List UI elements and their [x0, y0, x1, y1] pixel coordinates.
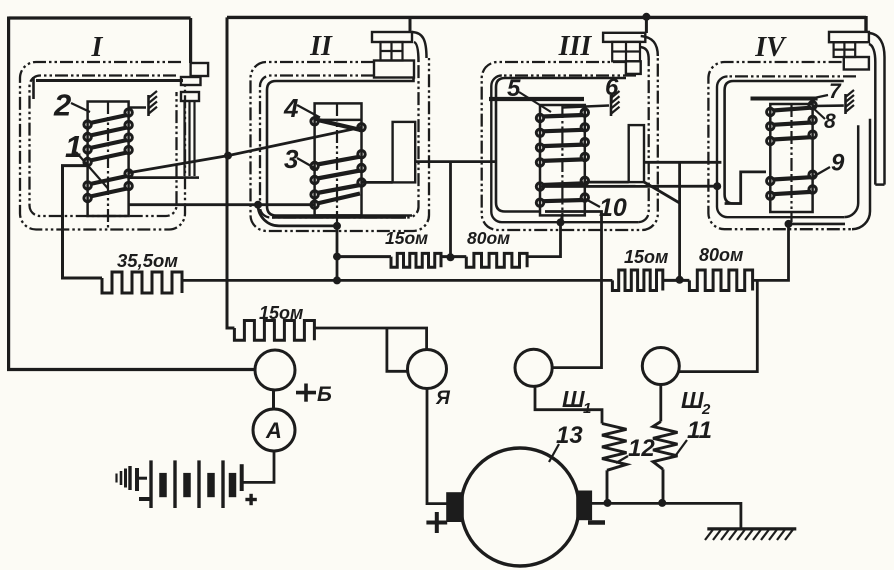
node junction resistor 12 bottom — [604, 499, 612, 507]
ground symbol — [707, 527, 796, 530]
coil I upper winding (2) turn d — [84, 158, 91, 165]
relay III case top-right corner outer (solid) — [641, 36, 658, 56]
node junction resistor 11 bottom — [658, 499, 666, 507]
relay II case inner (dash-dot) — [260, 62, 419, 218]
resistor 15 ohm row-1 comb — [391, 253, 441, 267]
svg-text:13: 13 — [556, 422, 583, 449]
coil IV lower winding (9) turn a — [767, 177, 774, 184]
svg-text:5: 5 — [507, 75, 521, 102]
contact III step plate — [626, 61, 641, 74]
label +B plus — [296, 391, 316, 395]
wire between row-1 resistors — [441, 255, 466, 258]
wire coil III axis to case bottom junction — [561, 215, 563, 222]
label motor minus — [588, 520, 605, 525]
leader for label 5 — [519, 92, 551, 112]
relay III case inner top (dash-dot) — [502, 74, 636, 76]
resistor 80 ohm row-2 comb — [689, 270, 752, 291]
wire step into coil IV lower winding — [725, 172, 766, 204]
wire coil III right rail to side bar — [585, 181, 629, 184]
svg-text:III: III — [558, 31, 593, 62]
leader for label 1 — [76, 152, 108, 189]
relay III case outer (dash-dot) — [482, 56, 658, 230]
resistor 80 ohm row-1 comb — [466, 253, 527, 267]
coil IV core rectangle — [770, 104, 812, 212]
wire between row-2 resistors — [663, 279, 690, 282]
coil I lower winding (1) turn a — [84, 182, 91, 189]
relay IV case top-right corner outer (solid) — [869, 33, 885, 57]
coil I upper winding (2) turn c — [84, 146, 91, 153]
relay I case outer (dash-dot) — [20, 62, 185, 230]
battery plate short 4 — [229, 473, 237, 497]
svg-text:35,5ом: 35,5ом — [117, 250, 178, 271]
wire lower 15 ohm exit to Ya terminal — [314, 328, 426, 350]
contact stack I tab C — [181, 92, 199, 101]
node junction row-2 between right resistors — [676, 276, 684, 284]
terminal Sh2 circle — [642, 348, 679, 385]
wire diagonal coil I to junction — [129, 156, 228, 173]
node bus junction above block III — [642, 13, 650, 21]
wire block II outer left edge down to 15 ohm resistor — [227, 17, 234, 328]
contact stack I tab B — [181, 77, 201, 85]
relay II case inner bottom (solid) — [272, 216, 406, 218]
relay II case top-right corner outer (solid) — [412, 32, 427, 58]
wire coil I rail bottom to coil II bottom — [129, 203, 315, 206]
relay IV right side outer (solid) — [883, 57, 886, 185]
coil III upper winding (5) turn a — [536, 114, 543, 121]
contact stack I tab A — [191, 63, 209, 76]
contact stack I leg 3 — [193, 101, 195, 176]
battery plate short 2 — [183, 473, 191, 497]
wire block I outer box right edge — [189, 18, 192, 63]
battery taper end — [115, 474, 117, 483]
leader for label 13 — [549, 444, 559, 462]
wire coil I armature arm to fixed contact — [129, 106, 146, 109]
svg-text:12: 12 — [628, 435, 655, 462]
svg-text:15ом: 15ом — [259, 303, 303, 323]
wire row-1 entry — [337, 255, 391, 258]
wire long row-2 from 35.5 ohm to right resistors — [182, 279, 612, 282]
wire diagonal side bar III to row-2 dropper — [644, 182, 680, 203]
battery plate short 1 — [159, 473, 167, 497]
relay IV bottom-right corner curve inner — [844, 125, 858, 217]
coil I core axis (dash-dot) — [107, 101, 109, 228]
coil I core rectangle — [88, 102, 129, 217]
relay IV case inner left+bottom (solid) — [717, 76, 844, 217]
contact IV tab bar — [829, 32, 869, 42]
relay IV right side inner (solid) — [874, 62, 877, 185]
armature bar III — [489, 97, 584, 101]
contact II square stack — [381, 42, 403, 61]
wire block I outer box top edge — [9, 16, 191, 19]
svg-text:8: 8 — [824, 110, 836, 133]
svg-text:10: 10 — [599, 194, 627, 222]
coil II lower winding (3) turn a — [311, 162, 318, 169]
relay III case inner right (dash-dot) — [638, 60, 649, 222]
relay IV case inner top (dash-dot) — [728, 75, 857, 77]
svg-text:А: А — [265, 418, 282, 443]
relay I inner frame stub — [32, 77, 35, 99]
relay II case top-right corner inner (solid) — [414, 42, 419, 62]
coil IV upper winding (8) turn b — [767, 123, 774, 130]
svg-text:7: 7 — [829, 80, 842, 103]
motor minus brush — [577, 492, 591, 520]
wire coil II axis down through resistor rows — [336, 226, 339, 281]
relay II case outer (dash-dot) — [251, 58, 430, 231]
coil II lower winding (3) turn b — [311, 176, 318, 183]
coil III lower winding (10) turn b — [536, 199, 543, 206]
resistor 15 ohm row-2 comb — [612, 270, 662, 291]
svg-text:15ом: 15ом — [385, 228, 428, 248]
node junction row-1 start — [333, 253, 341, 261]
svg-text:Ш: Ш — [562, 386, 585, 412]
svg-text:15ом: 15ом — [624, 247, 668, 267]
wire side bar II to block III frame — [415, 160, 496, 163]
battery minus sign — [139, 497, 151, 501]
armature bar IV — [751, 97, 818, 101]
svg-text:IV: IV — [754, 32, 787, 63]
battery left terminal bar — [135, 468, 139, 491]
coil IV lower winding (9) turn b — [767, 192, 774, 199]
wire minus brush to ground — [591, 503, 741, 529]
wire ammeter to battery positive — [244, 451, 275, 482]
relay IV bottom-right corner curve outer — [852, 119, 870, 230]
svg-text:9: 9 — [831, 150, 845, 177]
svg-text:I: I — [91, 32, 104, 63]
resistor 15 ohm lower comb — [234, 321, 314, 341]
coil II lower winding (3) turn c — [311, 191, 318, 198]
svg-text:2: 2 — [701, 401, 711, 418]
relay I case inner (dash-dot) — [30, 76, 177, 217]
coil III upper winding (5) turn d — [536, 159, 543, 166]
relay IV case top-right corner inner (solid) — [869, 44, 875, 62]
node junction block III case bottom — [557, 218, 565, 226]
wire coil III winding 10 to block IV coil (long) — [540, 185, 717, 188]
contact IV step plate — [844, 57, 869, 70]
relay I inner frame line (solid) — [36, 79, 183, 82]
battery plate long 4 — [221, 460, 224, 508]
relay IV right side foot — [875, 183, 884, 186]
leader for label 8 — [812, 107, 825, 119]
wire junction to case bottom right — [789, 223, 846, 226]
wire coil II right rail to side bar — [362, 181, 393, 184]
battery end plate — [240, 464, 244, 491]
node junction between row-1 resistors — [447, 253, 455, 261]
svg-text:1: 1 — [65, 129, 82, 164]
leader for label 10 — [586, 199, 601, 207]
wire block I outer box left edge + wire to +B terminal — [9, 17, 255, 370]
wire Sh2 riser from row-2 — [679, 280, 757, 371]
wire coil I lower tap to 35.5 ohm resistor — [63, 166, 103, 278]
coil I upper winding (2) turn b — [84, 133, 91, 140]
wire curving from junction down around case to coil II axis — [258, 205, 337, 226]
wire resistor 11 to minus bus — [662, 469, 665, 503]
coil II bottom turn — [311, 201, 318, 208]
svg-text:11: 11 — [687, 417, 712, 444]
wire row-2 exit to block IV riser — [753, 224, 789, 281]
coil II core rectangle — [315, 103, 362, 215]
coil III core rectangle — [540, 105, 585, 215]
coil III upper winding (5) turn c — [536, 144, 543, 151]
node junction block IV case bottom — [785, 220, 793, 228]
coil II core axis (dash-dot) — [336, 103, 338, 225]
battery plate long 3 — [197, 460, 200, 508]
wire +B to ammeter — [272, 390, 275, 410]
wire resistor 12 to minus bus — [606, 470, 609, 503]
node junction row-2 crossing — [333, 276, 341, 284]
block III side bar — [629, 125, 644, 182]
wire side bar III to block IV (upper) — [644, 161, 721, 164]
contact stack I leg 2 — [188, 101, 190, 176]
wire top bus II-III-IV — [227, 16, 866, 19]
terminal Ya circle — [408, 350, 447, 389]
wire row-1 exit up to block III case — [527, 222, 560, 256]
wire coil I right rail to contact stack foot — [129, 176, 183, 179]
contact stack I foot — [183, 176, 199, 179]
leader for label 12 — [616, 456, 628, 463]
contact IV square stack — [834, 42, 856, 57]
contact II step plate — [374, 61, 414, 78]
leader for label 3 — [297, 158, 318, 170]
battery plate long 1 — [149, 460, 152, 508]
fixed contact of relay III (hatched) — [610, 95, 613, 116]
coil IV core axis (dash-dot) — [790, 104, 792, 222]
block II side bar — [393, 122, 416, 182]
battery plus sign — [245, 498, 256, 501]
wire coil III bottom to Sh1 dropper — [545, 212, 602, 368]
coil IV upper winding (8) turn a — [767, 108, 774, 115]
resistor 35.5 ohm comb — [102, 272, 182, 293]
terminal +B circle — [255, 350, 295, 390]
battery plate long 2 — [173, 460, 176, 508]
contact III square stack — [612, 42, 640, 61]
wire row-1 dropper — [449, 162, 452, 258]
contact II tab bar — [372, 32, 412, 42]
svg-text:2: 2 — [53, 88, 71, 123]
wire diagonal junction to coil II upper turn — [228, 127, 362, 155]
svg-text:80ом: 80ом — [699, 245, 743, 265]
resistor 11 zigzag — [653, 422, 678, 470]
wire armature III arm to fixed contact — [562, 106, 609, 108]
svg-text:Ш: Ш — [681, 387, 704, 413]
leader for label 7 — [814, 95, 828, 98]
leader for label 11 — [676, 440, 687, 455]
coil I lower winding (1) turn b — [84, 194, 91, 201]
leader for label 9 — [814, 167, 831, 177]
fixed contact of relay I (hatched) — [147, 95, 150, 116]
relay III case top-right corner inner (solid) — [641, 47, 649, 60]
relay III case inner left+bottom (solid) — [491, 76, 638, 223]
battery plate short 3 — [207, 473, 215, 497]
wire bus drop to block III contact — [645, 17, 648, 33]
node junction coil II axis top — [333, 222, 341, 230]
node junction on block IV case left — [713, 182, 721, 190]
coil III upper winding (5) turn b — [536, 129, 543, 136]
relay II inner frame loop (solid) — [267, 77, 414, 215]
relay IV inner frame loop (solid) — [725, 81, 844, 204]
coil II winding 4 divider — [315, 119, 362, 122]
wire armature IV arm to fixed contact — [813, 104, 844, 107]
leader for label 4 — [297, 105, 320, 118]
coil III core axis (dash-dot) — [561, 105, 563, 221]
node junction on block II left edge — [224, 152, 232, 160]
wire Ya to motor plus brush — [427, 388, 447, 503]
node junction on wire at block II case corner — [254, 201, 262, 209]
ammeter circle — [253, 409, 295, 451]
terminal Sh1 circle — [515, 349, 552, 386]
contact III tab bar — [603, 33, 645, 42]
generator 13 circle — [461, 448, 579, 566]
contact II drop from bus — [409, 17, 412, 32]
svg-text:Б: Б — [317, 383, 332, 406]
coil II upper winding turn — [311, 118, 318, 125]
coil III lower winding (10) turn a — [536, 183, 543, 190]
wire stub to Ya terminal left — [387, 328, 408, 371]
svg-text:Я: Я — [435, 388, 451, 409]
svg-text:II: II — [309, 31, 333, 62]
resistor 12 zigzag — [602, 424, 627, 471]
leader for label 6 — [610, 94, 613, 101]
motor plus brush — [447, 493, 463, 521]
label motor plus — [426, 521, 447, 525]
fixed contact of relay IV (hatched) — [844, 94, 847, 114]
wire Sh2 bottom to resistor 11 — [659, 384, 662, 422]
wire row-2 dropper x679 — [678, 162, 681, 280]
wire Sh1 bottom to resistor 12 — [535, 386, 602, 424]
relay III inner frame loop (solid) — [496, 78, 626, 212]
coil I upper winding (2) turn a — [84, 121, 91, 128]
contact stack I leg 1 — [183, 101, 185, 176]
leader for label 2 — [71, 103, 90, 112]
wire bus right end drop into block IV contact — [864, 16, 867, 33]
coil IV upper winding (8) turn c — [767, 137, 774, 144]
svg-text:4: 4 — [283, 93, 299, 123]
relay IV case outer left+top+bottom (dash-dot) — [708, 62, 852, 229]
